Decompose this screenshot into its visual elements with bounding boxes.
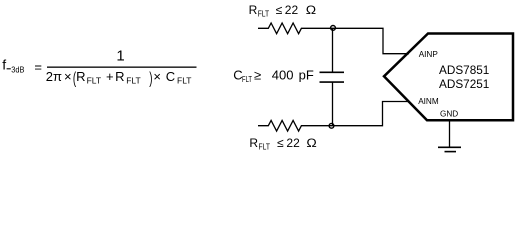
svg-text:400: 400 xyxy=(272,67,294,82)
wire top junction to AINP pin xyxy=(334,28,410,53)
svg-text:FLT: FLT xyxy=(87,76,101,86)
wire capacitor top lead xyxy=(332,28,334,72)
label RFLT <= 22 ohm (top) xyxy=(249,3,317,19)
svg-text:ADS7251: ADS7251 xyxy=(439,78,489,91)
svg-text:1: 1 xyxy=(116,47,124,64)
resistor RFLT top xyxy=(258,23,334,34)
svg-text:FLT: FLT xyxy=(126,76,140,86)
wire GND pin xyxy=(449,121,451,147)
svg-text:2π: 2π xyxy=(46,69,62,84)
node junction bottom xyxy=(329,123,334,128)
svg-text:R: R xyxy=(76,69,85,84)
svg-text:FLT: FLT xyxy=(177,76,191,86)
svg-text:×: × xyxy=(153,69,161,84)
svg-text:R: R xyxy=(249,136,258,150)
ADC U1 ADS7851/ADS7251 outline xyxy=(384,34,513,121)
svg-text:≤: ≤ xyxy=(276,3,283,17)
resistor RFLT bottom xyxy=(258,120,333,131)
svg-text:C: C xyxy=(166,69,175,84)
svg-text:3dB: 3dB xyxy=(11,64,24,74)
formula denominator 2pi x (RFLT + RFLT) x CFLT xyxy=(46,69,192,87)
formula fraction bar xyxy=(47,67,197,68)
node junction top xyxy=(331,26,336,31)
svg-text:GND: GND xyxy=(440,110,458,119)
svg-text:Ω: Ω xyxy=(306,3,316,17)
svg-text:R: R xyxy=(249,3,258,17)
label CFLT >= 400 pF xyxy=(233,67,314,84)
wire capacitor bottom lead xyxy=(332,82,334,126)
svg-text:≤: ≤ xyxy=(277,136,284,150)
svg-text:ADS7851: ADS7851 xyxy=(439,64,489,77)
svg-text:=: = xyxy=(34,59,42,74)
svg-text:+: + xyxy=(106,69,114,84)
svg-text:×: × xyxy=(64,69,72,84)
ground symbol xyxy=(438,147,461,151)
svg-text:AINM: AINM xyxy=(418,97,439,106)
capacitor CFLT plates xyxy=(320,72,345,82)
formula f-3dB = xyxy=(2,57,42,75)
svg-text:): ) xyxy=(149,69,152,87)
svg-text:22: 22 xyxy=(286,136,300,150)
svg-text:Ω: Ω xyxy=(306,136,316,150)
svg-text:f: f xyxy=(2,57,6,73)
svg-text:pF: pF xyxy=(299,67,314,82)
svg-text:R: R xyxy=(115,69,124,84)
label RFLT <= 22 ohm (bottom) xyxy=(249,136,316,152)
svg-text:FLT: FLT xyxy=(258,10,270,19)
svg-text:≥: ≥ xyxy=(254,67,261,82)
svg-text:22: 22 xyxy=(285,3,299,17)
svg-text:FLT: FLT xyxy=(242,75,252,84)
svg-text:AINP: AINP xyxy=(419,50,439,59)
svg-text:FLT: FLT xyxy=(259,143,271,152)
wire bottom junction to AINM pin xyxy=(333,102,409,126)
